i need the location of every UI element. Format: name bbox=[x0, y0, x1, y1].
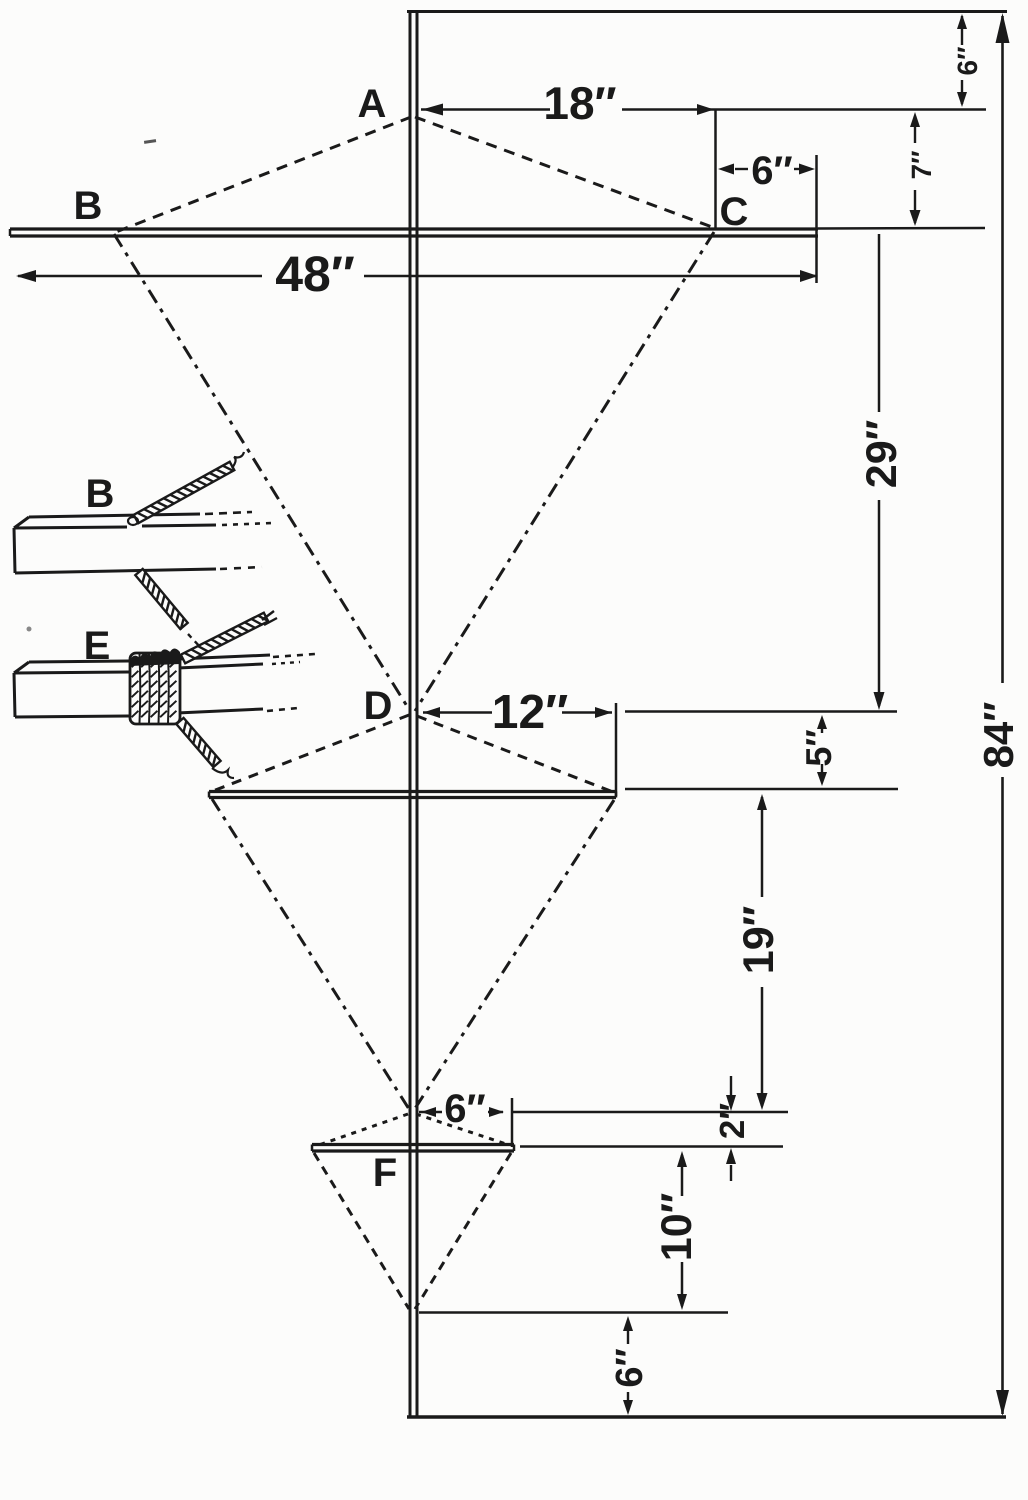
svg-text:B: B bbox=[86, 472, 115, 516]
extension tick at spar1 right end bbox=[815, 155, 818, 283]
arrow 7in down bbox=[910, 210, 921, 226]
dimension line 29in upper part bbox=[878, 234, 881, 412]
detail B cord break squiggle bbox=[232, 452, 244, 468]
dimension line 6in top-right lower bbox=[961, 80, 963, 104]
outline line C to D (dash-dot) bbox=[415, 232, 714, 711]
extension line at spar3 level bbox=[520, 1145, 783, 1148]
outline line spar2 right to point P3 (dash-dot) bbox=[414, 800, 614, 1110]
arrow 6in at C left bbox=[718, 164, 734, 175]
dimension line 84in lower part bbox=[1001, 777, 1004, 1414]
dimension line 18in right part bbox=[622, 108, 714, 111]
dimension line 84in upper part bbox=[1001, 16, 1004, 683]
outline line B to D (dash-dot) bbox=[114, 234, 410, 711]
spar3 right end cap bbox=[513, 1145, 516, 1152]
detail B stick dashed continuation top-front bbox=[222, 523, 272, 525]
bottom extension line bbox=[407, 1415, 1006, 1418]
detail E stick dashed continuation bottom bbox=[267, 708, 298, 711]
svg-text:10″: 10″ bbox=[653, 1193, 701, 1261]
dimension line 6in bottom lower bbox=[627, 1392, 629, 1401]
svg-text:D: D bbox=[364, 684, 393, 728]
dimension line 5in lower bbox=[821, 764, 823, 772]
svg-text:C: C bbox=[720, 190, 749, 234]
arrow 19in up bbox=[757, 794, 767, 810]
dimension line 2in upper tail bbox=[730, 1076, 732, 1095]
arrow 18in right bbox=[697, 104, 714, 115]
dimension line 6in at C right part bbox=[794, 168, 799, 170]
arrow 12in left bbox=[423, 707, 440, 718]
detail B cord lower dashed tail bbox=[188, 634, 201, 648]
detail B cord lower bbox=[135, 569, 187, 630]
dimension line 48in right part bbox=[364, 275, 817, 278]
dimension line 12in right part bbox=[562, 711, 612, 714]
svg-text:6″: 6″ bbox=[952, 47, 983, 76]
dimension line 19in upper part bbox=[761, 797, 764, 897]
outline line spar3 right to bottom point (dashed) bbox=[415, 1153, 511, 1309]
dimension line 18in left part bbox=[421, 108, 550, 111]
dimension line 48in left part bbox=[18, 275, 262, 278]
arrow 29in down bbox=[874, 692, 885, 710]
outline line spar2 left to point P3 (dash-dot) bbox=[212, 799, 409, 1109]
svg-text:19″: 19″ bbox=[735, 906, 783, 974]
spar3 left end cap bbox=[311, 1145, 314, 1152]
dimension line 12in left part bbox=[423, 711, 492, 714]
dimension line 6in at C left part bbox=[735, 168, 748, 170]
dimension line 6in at P3 left part bbox=[419, 1111, 442, 1114]
arrow 84in bottom bbox=[996, 1390, 1009, 1416]
dimension line 6in top-right upper bbox=[961, 16, 963, 45]
spar2 bottom line bbox=[209, 796, 616, 799]
svg-text:6″: 6″ bbox=[609, 1348, 651, 1387]
detail B cord upper (through notch) bbox=[134, 462, 235, 523]
detail B stick dashed continuation bottom bbox=[220, 567, 262, 569]
svg-text:7″: 7″ bbox=[906, 151, 937, 180]
svg-text:F: F bbox=[373, 1151, 397, 1195]
arrow 19in down bbox=[757, 1093, 768, 1110]
extension tick at 18in right end down to C bbox=[714, 110, 717, 229]
spar1 left end cap bbox=[9, 229, 12, 236]
svg-text:6″: 6″ bbox=[751, 149, 792, 193]
arrow 6in bottom down bbox=[623, 1400, 633, 1415]
arrow 10in up bbox=[677, 1151, 687, 1167]
svg-text:48″: 48″ bbox=[275, 246, 355, 302]
arrow 84in top bbox=[996, 13, 1010, 43]
arrow 2in up (below line) bbox=[726, 1148, 736, 1164]
dimension line 29in lower part bbox=[878, 500, 881, 706]
arrow 48in left bbox=[16, 270, 36, 282]
extension line from A level to 6in dim bbox=[714, 108, 986, 111]
outline line D to spar2 right end (dashed) bbox=[417, 716, 613, 792]
dimension line 6in bottom upper bbox=[627, 1330, 629, 1344]
detail E stick dashed continuation top-front bbox=[272, 662, 300, 664]
extension line at bottom point of kite bbox=[419, 1311, 728, 1314]
spine right line bbox=[416, 10, 419, 1417]
dimension line 5in spacer bbox=[764, 747, 766, 749]
spar2 top line (24in cross stick) bbox=[209, 790, 616, 793]
arrow 6in at P3 right bbox=[489, 1107, 504, 1117]
arrow 6in top-right up bbox=[957, 14, 967, 29]
detail B stick outline bbox=[14, 514, 216, 573]
outline line spar3 left to bottom point (dashed) bbox=[314, 1153, 409, 1309]
arrow 6in top-right down bbox=[957, 92, 967, 107]
detail E cord upper frayed end bbox=[262, 611, 277, 625]
svg-text:5″: 5″ bbox=[798, 729, 839, 766]
arrow 10in down bbox=[677, 1294, 687, 1310]
outline line P3 to spar3 left (dotted) bbox=[316, 1114, 408, 1146]
spar3 bottom line bbox=[312, 1149, 514, 1152]
spine left line (vertical stick, 84in) bbox=[409, 10, 412, 1417]
spar3 top line (12in cross stick) bbox=[312, 1143, 514, 1146]
detail E stick dashed continuation top bbox=[273, 654, 315, 657]
arrow 2in down (above line) bbox=[726, 1095, 736, 1111]
paper speck bbox=[144, 139, 156, 144]
spar2 left end cap bbox=[208, 792, 211, 798]
arrow 12in right bbox=[595, 707, 612, 718]
arrow 5in down bbox=[817, 772, 827, 786]
svg-text:29″: 29″ bbox=[858, 420, 906, 488]
extension line at P3 level bbox=[512, 1111, 788, 1114]
svg-text:B: B bbox=[74, 184, 103, 228]
detail E lashing coil bbox=[130, 649, 180, 725]
spar1 top line (48in cross stick) bbox=[10, 227, 818, 230]
detail B stick dashed continuation top-back bbox=[205, 512, 252, 514]
dimension line 5in upper bbox=[821, 728, 823, 733]
bridle line A to B (dashed) bbox=[116, 117, 411, 232]
arrow 6in at C right bbox=[799, 164, 815, 175]
detail B notch mark bbox=[128, 517, 138, 525]
arrow 5in up bbox=[817, 715, 827, 729]
svg-text:84″: 84″ bbox=[975, 702, 1022, 769]
dimension line 10in lower part bbox=[681, 1262, 684, 1306]
svg-text:18″: 18″ bbox=[543, 77, 616, 129]
dimension line 19in lower part bbox=[761, 987, 764, 1106]
extension line from D to 29in/5in dims bbox=[625, 710, 897, 713]
arrow 6in bottom up bbox=[623, 1316, 633, 1331]
arrow 7in up bbox=[910, 112, 920, 127]
arrow 48in right bbox=[800, 270, 818, 282]
dimension line 7in upper bbox=[914, 116, 916, 143]
extension line from spar1 to 7in/29in dims bbox=[818, 227, 985, 230]
spar1 bottom line bbox=[10, 234, 818, 237]
svg-text:A: A bbox=[358, 82, 387, 126]
arrow 6in at P3 left bbox=[421, 1107, 436, 1117]
detail E cord lower tail bbox=[176, 718, 220, 767]
svg-text:12″: 12″ bbox=[492, 686, 568, 739]
outline line P3 to spar3 right (dotted) bbox=[416, 1114, 509, 1145]
dimension line 10in upper part bbox=[681, 1155, 684, 1196]
spar2 right end cap bbox=[615, 792, 618, 798]
top extension line (top of spine) bbox=[407, 10, 1007, 13]
bridle line A to C (dashed) bbox=[415, 117, 712, 227]
detail E cord upper tail bbox=[181, 613, 269, 664]
extension tick at 6in P3 right end bbox=[511, 1098, 514, 1147]
detail E cord lower squiggle end bbox=[212, 768, 234, 778]
extension tick at spar2 right end bbox=[615, 703, 618, 796]
paper speck 2 bbox=[27, 627, 32, 632]
outline line D to spar2 left end (dashed) bbox=[213, 715, 409, 791]
dimension line 6in at P3 right part bbox=[488, 1111, 503, 1114]
extension line from spar2 to 5in/19in dims bbox=[625, 788, 898, 791]
svg-text:2″: 2″ bbox=[713, 1103, 752, 1139]
dimension line 2in lower tail bbox=[730, 1165, 732, 1181]
detail E stick outline bbox=[14, 655, 270, 717]
dimension line 7in lower bbox=[914, 190, 916, 223]
arrow 18in left bbox=[422, 104, 443, 116]
